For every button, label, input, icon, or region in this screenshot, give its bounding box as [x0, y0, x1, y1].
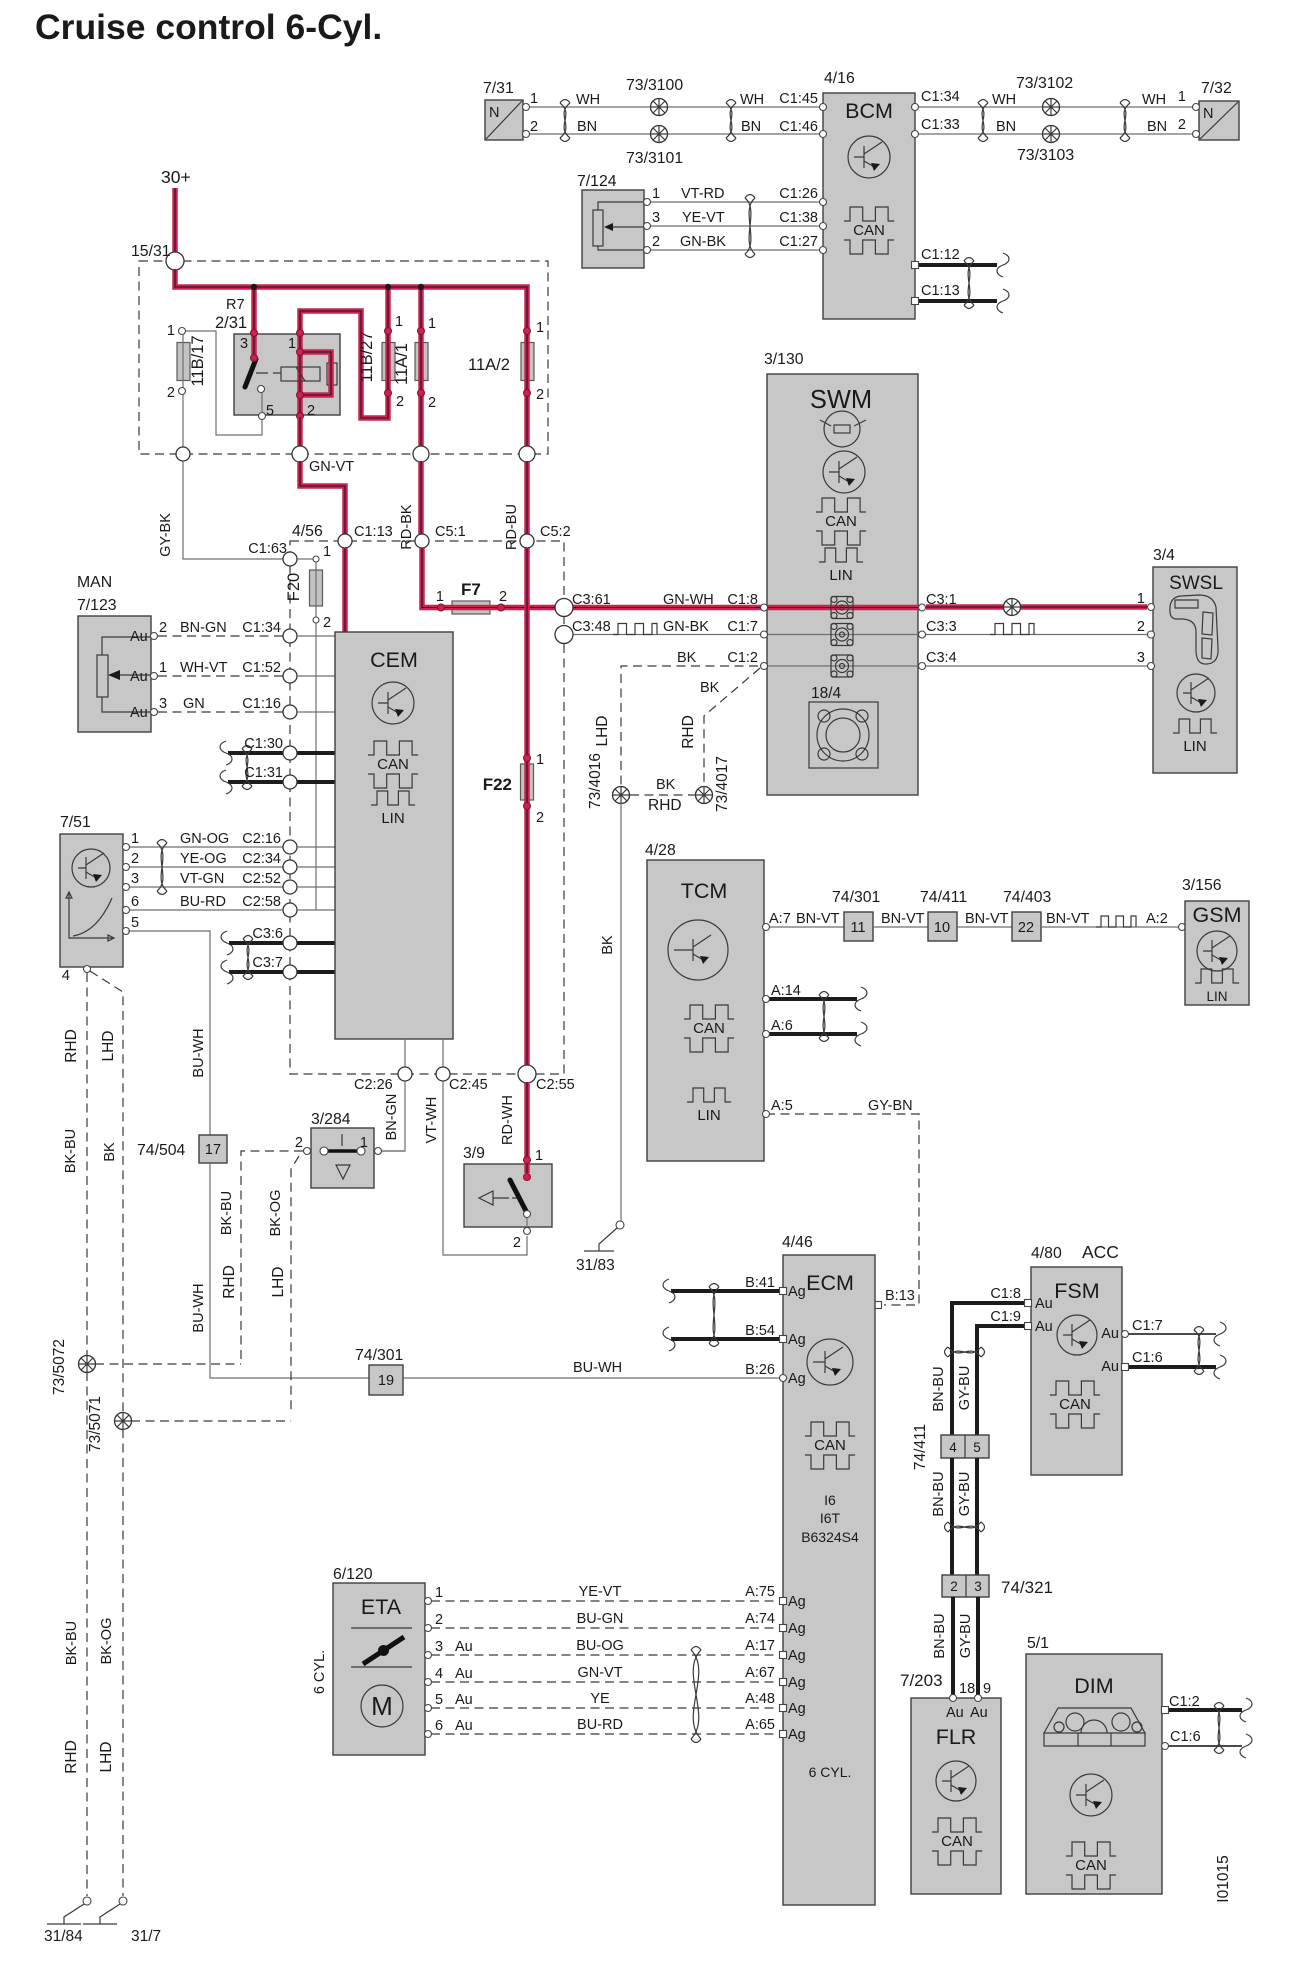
SWM button icon 2 [831, 624, 853, 646]
throttle unit ETA 6/120 [333, 1583, 425, 1755]
break B:54 [663, 1327, 675, 1351]
BCM pin C1:33 [912, 131, 919, 138]
wire BCM C1:13 CAN [915, 299, 997, 303]
svg-text:BU-WH: BU-WH [191, 1283, 207, 1332]
svg-text:BU-RD: BU-RD [577, 1717, 623, 1733]
svg-text:2: 2 [428, 395, 436, 411]
svg-text:3: 3 [652, 210, 660, 226]
FSM transistor icon [1057, 1315, 1097, 1355]
CEM LIN icon [371, 791, 415, 827]
svg-text:4: 4 [62, 968, 70, 984]
splice 73/4016 [613, 787, 630, 804]
7/51 pin3 [123, 884, 130, 891]
wire C2:34 to CEM [297, 866, 335, 868]
3/284 pin2 [304, 1148, 311, 1155]
3/284 pin1 [375, 1148, 382, 1155]
svg-text:RHD: RHD [648, 797, 682, 814]
BCM pin C1:12 [912, 262, 919, 269]
svg-text:C2:34: C2:34 [242, 851, 281, 867]
wire BU-GN ETA to ECM A:74 [431, 1627, 780, 1629]
svg-text:73/3102: 73/3102 [1016, 75, 1073, 92]
svg-text:5: 5 [266, 403, 274, 419]
svg-text:4/80: 4/80 [1031, 1245, 1062, 1262]
svg-text:CAN: CAN [814, 1437, 846, 1454]
7/51 pin1 [123, 844, 130, 851]
wire branch 11A/1 pin1 [418, 287, 424, 447]
svg-text:3/284: 3/284 [311, 1111, 351, 1128]
svg-text:6 CYL.: 6 CYL. [809, 1764, 852, 1780]
svg-text:B:26: B:26 [745, 1362, 775, 1378]
svg-text:BU-WH: BU-WH [573, 1360, 622, 1376]
svg-text:C5:1: C5:1 [435, 524, 466, 540]
7/32 pin1 [1193, 104, 1200, 111]
svg-text:BN-GN: BN-GN [384, 1094, 400, 1141]
ETA pin 5 [425, 1705, 432, 1712]
svg-text:1: 1 [435, 1585, 443, 1601]
wire ECM B:41 CAN [671, 1289, 783, 1293]
wire C3:4 to SWSL pin3 [926, 665, 1147, 667]
wire C3:1 to SWSL pin1 [926, 604, 1147, 610]
svg-text:N: N [489, 105, 499, 121]
svg-text:73/5072: 73/5072 [51, 1339, 68, 1395]
SWM wire row2 through box [764, 634, 922, 636]
wire 7/51 pin5 BU-WH [128, 931, 210, 1135]
svg-text:3: 3 [974, 1579, 982, 1594]
wire relay coil loop [301, 352, 331, 395]
svg-text:A:67: A:67 [745, 1665, 775, 1681]
svg-text:1: 1 [536, 320, 544, 336]
twisted C1:30/31 [242, 746, 252, 790]
svg-text:Ag: Ag [788, 1332, 806, 1348]
splice 73/3102 [1043, 99, 1060, 116]
node C2:52 [283, 880, 297, 894]
FLR pin18 [950, 1695, 957, 1702]
break A:6 [855, 1022, 867, 1046]
SWM transistor icon [823, 451, 865, 493]
BCM pin C1:38 [820, 223, 827, 230]
svg-text:5: 5 [973, 1440, 981, 1455]
svg-text:BN-BU: BN-BU [932, 1613, 948, 1658]
7/31 diagonal [486, 101, 522, 139]
ECU ECM 4/46 [783, 1255, 875, 1905]
break FSM C1:7 [1214, 1322, 1226, 1346]
svg-text:LHD: LHD [270, 1266, 287, 1297]
ECM pin A:65 [780, 1731, 787, 1738]
ground 31/83 symbol [576, 1228, 617, 1274]
wire C2:58 to CEM [297, 909, 335, 911]
ECM pin B:54 [780, 1336, 787, 1343]
relay coil [281, 367, 320, 381]
7/32 pin2 [1193, 131, 1200, 138]
svg-text:BK-OG: BK-OG [268, 1190, 284, 1237]
svg-text:1: 1 [131, 831, 139, 847]
ECU SWM 3/130 [767, 374, 918, 795]
FLR pin9 [975, 1695, 982, 1702]
wire relay pin1 loop to 11B/27 pin2 [300, 311, 388, 418]
node C1:63 [283, 552, 297, 566]
svg-text:6/120: 6/120 [333, 1566, 373, 1583]
svg-text:C1:46: C1:46 [779, 119, 818, 135]
node RD-BK exit [413, 446, 429, 462]
relay contact coil bottom [297, 392, 304, 399]
svg-text:C3:3: C3:3 [926, 619, 957, 635]
svg-text:C2:45: C2:45 [449, 1077, 488, 1093]
svg-text:74/321: 74/321 [1001, 1578, 1053, 1597]
svg-text:TCM: TCM [681, 879, 728, 903]
DIM instrument cluster icon [1044, 1708, 1145, 1746]
FSM CAN icon [1050, 1381, 1100, 1428]
wire relay coil vertical [297, 334, 303, 417]
wire YE-VT 7/124 to BCM C1:38 [650, 225, 823, 227]
svg-text:31/84: 31/84 [44, 1928, 83, 1945]
break C3:6 [221, 931, 233, 955]
svg-text:C2:55: C2:55 [536, 1077, 575, 1093]
node C3:6 [283, 936, 297, 950]
BCM pin C1:45 [820, 104, 827, 111]
GSM transistor icon [1197, 931, 1237, 971]
svg-text:11A/1: 11A/1 [393, 343, 411, 385]
svg-text:BN-GN: BN-GN [180, 620, 227, 636]
svg-text:GY-BN: GY-BN [868, 1098, 913, 1114]
SWSL pin2 [1148, 631, 1155, 638]
wire GY-BU vertical seg2 [975, 1458, 979, 1575]
SWM horn icon 18/4 [809, 702, 878, 768]
11B/17 pin2 [179, 388, 186, 395]
wire C3:48 to SWM C1:7 [573, 634, 764, 636]
svg-text:Au: Au [455, 1692, 473, 1708]
svg-text:7/123: 7/123 [77, 597, 117, 614]
svg-text:A:2: A:2 [1146, 911, 1168, 927]
svg-text:7/32: 7/32 [1201, 80, 1232, 97]
svg-text:F7: F7 [461, 580, 481, 599]
wire 30+ feed down [172, 188, 178, 254]
svg-text:LIN: LIN [829, 567, 852, 584]
svg-text:F20: F20 [285, 573, 303, 601]
11A/1 pin1 [418, 328, 425, 335]
node C1:30 [283, 746, 297, 760]
wire GN-VT ETA to ECM A:67 [431, 1681, 780, 1683]
relay contact pin1 top [297, 330, 304, 337]
svg-text:A:74: A:74 [745, 1611, 775, 1627]
wire BN BCM C1:33 to 7/32 [915, 133, 1193, 135]
svg-text:CAN: CAN [1075, 1857, 1107, 1874]
twisted ETA wires 3-6 [691, 1647, 701, 1743]
node C2:55 [518, 1065, 536, 1083]
ECU FSM 4/80 [1031, 1267, 1122, 1475]
fuse F7 [452, 601, 490, 614]
svg-text:C5:2: C5:2 [540, 524, 571, 540]
connector 7/31 (N) [485, 100, 523, 140]
svg-text:11A/2: 11A/2 [468, 356, 510, 374]
svg-text:C1:45: C1:45 [779, 91, 818, 107]
SWSL lever icon [1170, 595, 1218, 664]
SWM clockspring icon [820, 411, 866, 447]
svg-text:CAN: CAN [941, 1833, 973, 1850]
ETA pin 1 [425, 1598, 432, 1605]
TCM pin A:14 [763, 996, 770, 1003]
dashed CEM connector box 4/56 [290, 541, 564, 1074]
pulse symbol GN-BK [613, 624, 657, 635]
svg-text:C3:48: C3:48 [572, 619, 611, 635]
twisted pair WH/BN right [726, 100, 736, 142]
ETA pin 4 [425, 1679, 432, 1686]
FSM pin C1:7 [1122, 1331, 1129, 1338]
7/31 pin2 [523, 131, 530, 138]
wire TCM A:5 GY-BN dashed [766, 1114, 919, 1305]
svg-text:11B/17: 11B/17 [189, 335, 207, 386]
svg-text:C1:8: C1:8 [727, 592, 758, 608]
wire BK between splices [630, 794, 696, 796]
svg-text:B:13: B:13 [885, 1288, 915, 1304]
wire VT-WH from CEM [442, 1039, 444, 1067]
svg-text:5: 5 [131, 915, 139, 931]
wire YE-VT ETA to ECM A:75 [431, 1600, 780, 1602]
wire GN-BK 7/124 to BCM C1:27 [650, 249, 823, 251]
splice 73/4017 [696, 787, 713, 804]
svg-text:6 CYL.: 6 CYL. [312, 1650, 328, 1694]
dashed distribution box A [139, 261, 548, 454]
svg-text:C2:16: C2:16 [242, 831, 281, 847]
svg-text:C1:26: C1:26 [779, 186, 818, 202]
svg-text:4/46: 4/46 [782, 1234, 813, 1251]
SWM pin C1:2 [761, 663, 768, 670]
break C1:31 [220, 770, 232, 794]
svg-text:RHD: RHD [221, 1265, 238, 1299]
junction at 11B/27 branch [385, 284, 391, 290]
switch 3/284 [311, 1128, 374, 1188]
node RD-BU exit [519, 446, 535, 462]
svg-text:4/56: 4/56 [292, 523, 323, 540]
fuse F20 [310, 570, 323, 606]
11B/27 pin1 [385, 328, 392, 335]
node 15/31 [166, 252, 184, 270]
wire GY-BK down [183, 461, 283, 559]
node C1:52 [283, 669, 297, 683]
svg-text:C1:33: C1:33 [921, 117, 960, 133]
svg-text:1: 1 [535, 1148, 543, 1164]
break B:41 [663, 1279, 675, 1303]
svg-text:1: 1 [652, 186, 660, 202]
wire 3/9 pin1 into box [524, 1164, 530, 1173]
fuse 11A/2 [521, 343, 534, 381]
wire C2:16 to CEM [297, 846, 335, 848]
node C2:26 [398, 1067, 412, 1081]
wire F20 through fuse down to C2:58 net [315, 559, 317, 910]
svg-text:Au: Au [1035, 1296, 1053, 1312]
svg-text:BU-GN: BU-GN [577, 1611, 624, 1627]
wire GY-BU vertical seg1 [975, 1324, 979, 1435]
SWM pin C1:7 [761, 631, 768, 638]
svg-text:VT-GN: VT-GN [180, 871, 224, 887]
connector 74/301 pin11 [844, 912, 873, 941]
wire GN dashed [158, 711, 283, 713]
wire BN 7/31 pin2 to BCM C1:46 [529, 133, 823, 135]
svg-text:BN: BN [577, 119, 597, 135]
svg-text:A:5: A:5 [771, 1098, 793, 1114]
DIM CAN icon [1066, 1842, 1116, 1889]
svg-text:C3:6: C3:6 [252, 926, 283, 942]
wire BCM C1:12 CAN [915, 263, 997, 267]
svg-text:7/31: 7/31 [483, 80, 514, 97]
svg-text:18/4: 18/4 [811, 685, 842, 702]
twisted C1:12/C1:13 [964, 258, 974, 309]
twisted WH/BN right of BCM [978, 100, 988, 142]
svg-text:Au: Au [455, 1666, 473, 1682]
connector 7/124 [582, 190, 644, 268]
svg-text:BK-BU: BK-BU [219, 1191, 235, 1235]
relay contact pin1 inner [297, 349, 304, 356]
relay contact pin3 top [251, 330, 258, 337]
svg-text:GN-OG: GN-OG [180, 831, 229, 847]
svg-text:BN-VT: BN-VT [881, 911, 925, 927]
svg-text:A:17: A:17 [745, 1638, 775, 1654]
wire GN-OG [128, 846, 283, 848]
ETA separator line bottom [351, 1666, 412, 1668]
wire FSM C1:7 [1127, 1333, 1216, 1335]
svg-text:B6324S4: B6324S4 [801, 1529, 859, 1545]
wire VT-GN [128, 886, 283, 888]
wire C1:31 [228, 780, 335, 784]
node C2:16 [283, 840, 297, 854]
wire BK dashed RHD diagonal [704, 668, 760, 788]
svg-text:Ag: Ag [788, 1621, 806, 1637]
sensor 7/51 [60, 834, 123, 967]
F7 pin1 [438, 604, 445, 611]
svg-text:BK-BU: BK-BU [64, 1621, 80, 1665]
SWM pin C3:4 [919, 663, 926, 670]
svg-text:CAN: CAN [825, 513, 857, 530]
wire C1:16 to CEM [297, 711, 335, 713]
svg-text:BN: BN [741, 119, 761, 135]
svg-text:6: 6 [131, 894, 139, 910]
svg-text:1: 1 [395, 314, 403, 330]
svg-text:C1:2: C1:2 [727, 650, 758, 666]
wire C1:52 to CEM [297, 675, 335, 677]
wire WH 7/31 pin1 to BCM C1:45 [529, 106, 823, 108]
svg-text:C1:13: C1:13 [921, 283, 960, 299]
svg-text:BN: BN [1147, 119, 1167, 135]
svg-text:C1:8: C1:8 [990, 1286, 1021, 1302]
wire 11B/17 pin1 to relay pin5 [186, 331, 262, 435]
wire FSM C1:6 [1127, 1365, 1216, 1369]
svg-text:M: M [371, 1691, 393, 1721]
svg-text:ETA: ETA [361, 1595, 402, 1619]
break C1:30 [220, 741, 232, 765]
svg-text:3/130: 3/130 [764, 351, 804, 368]
svg-text:ECM: ECM [806, 1271, 854, 1295]
wire 73/5072 to RHD branch [95, 1363, 241, 1365]
7/32 diagonal [1200, 102, 1238, 139]
wire C1:63 to F20 [297, 558, 313, 560]
pulse symbol SWSL wire2 [990, 624, 1034, 635]
twisted A:14/A:6 [819, 992, 829, 1042]
11A/1 pin2 [418, 390, 425, 397]
svg-text:C3:61: C3:61 [572, 592, 611, 608]
wire branch relay pin3 [251, 287, 257, 330]
SWM LIN icon [819, 548, 863, 584]
wire ECM B:54 CAN [671, 1337, 783, 1341]
twisted DIM right [1214, 1703, 1224, 1754]
F7 pin2 [498, 604, 505, 611]
wire BU-OG ETA to ECM A:17 [431, 1654, 780, 1656]
svg-text:9: 9 [983, 1681, 991, 1697]
CEM transistor icon [372, 682, 414, 724]
svg-text:3: 3 [159, 696, 167, 712]
svg-text:CAN: CAN [853, 222, 885, 239]
ECU CEM 4/56 [335, 632, 453, 1039]
break DIM C1:6 [1240, 1734, 1252, 1758]
junction at relay pin3 branch [251, 284, 257, 290]
relay 2/31 R7 [234, 334, 340, 415]
svg-text:5: 5 [435, 1692, 443, 1708]
svg-text:RHD: RHD [63, 1029, 80, 1063]
svg-text:RD-BK: RD-BK [399, 504, 415, 549]
node C3:61 [555, 599, 573, 617]
svg-text:LHD: LHD [98, 1741, 115, 1772]
svg-text:RD-WH: RD-WH [500, 1095, 516, 1145]
FSM pin C1:8 [1025, 1300, 1032, 1307]
svg-text:BU-WH: BU-WH [191, 1028, 207, 1077]
F20 pin2 [313, 617, 319, 623]
wire YE-OG [128, 866, 283, 868]
connector 74/321 pins 2/3 [942, 1575, 989, 1597]
ETA pin 2 [425, 1625, 432, 1632]
svg-text:1: 1 [1137, 591, 1145, 607]
SWSL transistor icon [1177, 674, 1215, 712]
wire GY-BU FSM C1:9 [977, 1324, 1025, 1328]
twisted 7/51 wires 1-3 [157, 840, 167, 895]
svg-text:R7: R7 [226, 297, 245, 313]
fuse 11B/17 [177, 343, 190, 381]
F22 pin1 [524, 755, 531, 762]
svg-text:A:14: A:14 [771, 983, 801, 999]
svg-text:WH: WH [992, 92, 1016, 108]
relay contact pin3 inner [251, 355, 258, 362]
relay pin5 inner contact [258, 386, 265, 393]
ECM transistor icon [807, 1339, 853, 1385]
wire BN-VT seg4 [1041, 926, 1180, 928]
svg-text:BN-VT: BN-VT [796, 911, 840, 927]
svg-text:GN-BK: GN-BK [680, 234, 726, 250]
svg-text:LIN: LIN [1206, 989, 1227, 1004]
SWM button icon 1 [831, 597, 853, 619]
ground 31/83 [616, 1221, 624, 1229]
svg-text:C1:27: C1:27 [779, 234, 818, 250]
svg-text:MAN: MAN [77, 574, 112, 591]
svg-text:1: 1 [1178, 89, 1186, 105]
CEM CAN icon [368, 741, 418, 788]
wire BN-GN to 3/284 [382, 1081, 405, 1151]
svg-text:BCM: BCM [845, 99, 893, 123]
svg-text:C3:4: C3:4 [926, 650, 957, 666]
wire TCM A:7 BN-VT seg1 [766, 926, 844, 928]
svg-text:BK: BK [102, 1142, 118, 1162]
7/124 pin2 [644, 247, 651, 254]
svg-text:73/4017: 73/4017 [714, 756, 731, 812]
ECM pin A:48 [780, 1705, 787, 1712]
svg-text:74/504: 74/504 [137, 1142, 186, 1159]
splice on red wire [1004, 599, 1021, 616]
svg-text:BK-BU: BK-BU [63, 1129, 79, 1173]
svg-text:3: 3 [1137, 650, 1145, 666]
svg-text:Au: Au [130, 669, 148, 685]
node C3:48 [555, 626, 573, 644]
twisted 7/124 wires [745, 195, 755, 258]
TCM CAN icon [684, 1005, 734, 1052]
svg-text:5/1: 5/1 [1027, 1635, 1049, 1652]
3/284 switch symbol [320, 1134, 365, 1179]
svg-text:BN-BU: BN-BU [931, 1366, 947, 1411]
